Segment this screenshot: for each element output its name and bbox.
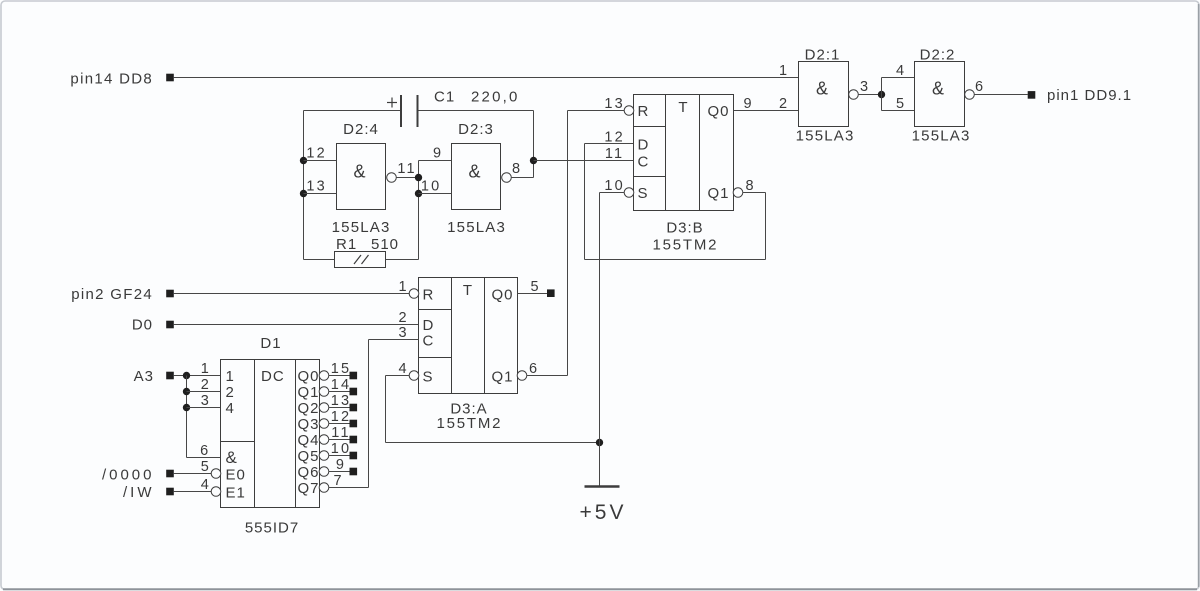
- svg-text:155LA3: 155LA3: [796, 128, 855, 145]
- svg-text:Q3: Q3: [298, 416, 320, 433]
- svg-text:Q1: Q1: [707, 185, 729, 202]
- wire D3:B feedback right vertical: [765, 193, 767, 260]
- D3:B cell line C/S: [634, 176, 666, 178]
- wire D2:2 pin 4: [882, 77, 915, 79]
- net label /0000: [102, 466, 155, 483]
- pin number 2 (D3:A D): [398, 310, 408, 326]
- output bubble Q5 (D1): [319, 451, 329, 461]
- pin number 4 (D3:A S): [398, 361, 408, 377]
- svg-text:4: 4: [896, 63, 906, 79]
- svg-text:8: 8: [512, 161, 522, 177]
- pin number 6 (D1): [200, 443, 210, 459]
- svg-text:Q7: Q7: [298, 480, 320, 497]
- svg-text:/0000: /0000: [102, 466, 155, 483]
- D3:A cell line R/D: [419, 309, 452, 311]
- pin number 10 (D3:B S): [604, 178, 625, 194]
- terminal Q0 D3:A: [547, 289, 555, 297]
- gate label D2:4: [343, 121, 379, 138]
- pin number 13 (D1 Q2): [331, 393, 352, 409]
- decoder D1 body: [221, 360, 320, 508]
- flip-flop D3:A body: [419, 278, 518, 394]
- port label D (D3:A): [423, 317, 435, 334]
- input bubble E0 (D1): [211, 469, 221, 479]
- svg-text:13: 13: [604, 96, 625, 112]
- amp symbol D2:1: [816, 79, 828, 99]
- wire D2:1 output to node B: [858, 94, 882, 96]
- port label R (D3:B): [638, 103, 650, 120]
- svg-text:pin1 DD9.1: pin1 DD9.1: [1047, 87, 1132, 104]
- net label pin14 DD8: [70, 71, 153, 88]
- wire D1 Q7 to D3:A C vertical: [368, 340, 370, 488]
- nand gate D2:3: [452, 144, 501, 210]
- port label E0 (D1): [226, 467, 246, 484]
- wire D2:4 pin 13: [304, 193, 337, 195]
- wire R1 left: [304, 259, 335, 261]
- type label 155LA3 (D2:1): [796, 128, 855, 145]
- svg-text:Q0: Q0: [707, 103, 729, 120]
- junction A3 pin3: [183, 404, 190, 411]
- port label Q5 (D1): [298, 448, 320, 465]
- terminal D1 Q2: [350, 404, 358, 412]
- svg-text:9: 9: [433, 146, 443, 162]
- type label 155TM2 (D3:A): [436, 415, 502, 432]
- pin number 2 (D2:1 input): [779, 96, 789, 112]
- wire bottom to +5V node: [386, 442, 600, 444]
- output bubble Q6 (D1): [319, 467, 329, 477]
- wire C1 right plate to node A: [419, 110, 534, 112]
- pin number 7 (D1 Q7): [333, 473, 343, 489]
- pin number 2 (D1): [201, 377, 211, 393]
- wire D3:B R: [568, 110, 625, 112]
- svg-text:D1: D1: [260, 335, 281, 352]
- net label /IW: [123, 484, 155, 501]
- pin number 8 (D3:B Q1): [745, 178, 755, 194]
- terminal D1 Q0: [350, 372, 358, 380]
- svg-text:C1: C1: [434, 89, 455, 106]
- svg-text:R: R: [423, 287, 435, 304]
- terminal /IW: [166, 488, 174, 496]
- wire D2:4 pin 12: [304, 160, 337, 162]
- wire /0000 to E0: [174, 473, 212, 475]
- svg-text:C: C: [638, 154, 650, 171]
- svg-text:3: 3: [398, 325, 408, 341]
- svg-text:2: 2: [398, 310, 408, 326]
- D3:B divider left: [665, 95, 667, 211]
- svg-text:9: 9: [743, 96, 753, 112]
- svg-text:155TM2: 155TM2: [436, 415, 502, 432]
- svg-text:S: S: [638, 185, 649, 202]
- output bubble Q4 (D1): [319, 435, 329, 445]
- svg-text:13: 13: [306, 179, 327, 195]
- junction node B: [878, 91, 885, 98]
- wire D1 pin 6: [187, 457, 221, 459]
- pin number 12 (D3:B D): [604, 130, 625, 146]
- port label C (D3:B): [638, 154, 650, 171]
- output bubble Q1 (D3:B): [733, 188, 743, 198]
- svg-text:A3: A3: [134, 368, 154, 385]
- net label A3: [134, 368, 154, 385]
- D1 divider right: [295, 360, 297, 508]
- input bubble R (D3:B): [624, 106, 634, 116]
- terminal D1 Q1: [350, 388, 358, 396]
- terminal pin2 GF24: [166, 290, 174, 298]
- junction on node for pin 13: [300, 190, 307, 197]
- pin number 10 (D1 Q5): [331, 441, 352, 457]
- wire C1 left node vertical: [303, 111, 305, 260]
- pin number 3 (D1): [201, 393, 211, 409]
- svg-text:T: T: [463, 282, 473, 299]
- wire C1 left plate: [304, 110, 401, 112]
- pin number 6 (D3:A Q1): [529, 361, 539, 377]
- wire D1 pin 2: [187, 391, 221, 393]
- wire D2:3 pin 9: [419, 160, 452, 162]
- svg-text:2: 2: [226, 384, 235, 401]
- wire R1 right: [386, 259, 419, 261]
- pin number 9 (D3:B Q0): [743, 96, 753, 112]
- svg-text:S: S: [423, 369, 434, 386]
- output bubble Q1 (D1): [319, 387, 329, 397]
- type label 555ID7 (D1): [245, 520, 299, 537]
- svg-text:Q1: Q1: [491, 369, 513, 386]
- pin number 13 (D3:B R): [604, 96, 625, 112]
- port label T (D3:A): [463, 282, 473, 299]
- terminal D0: [166, 321, 174, 329]
- port label Q6 (D1): [298, 464, 320, 481]
- terminal pin1 DD9.1: [1028, 91, 1036, 99]
- resistor value 510: [371, 236, 399, 253]
- pin number 9 (D1 Q6): [336, 457, 346, 473]
- value label C1: [434, 89, 455, 106]
- port label Q2 (D1): [298, 400, 320, 417]
- svg-text:11: 11: [605, 146, 624, 162]
- gate label D2:1: [805, 47, 841, 64]
- svg-text:D2:4: D2:4: [343, 121, 379, 138]
- svg-text:15: 15: [331, 361, 352, 377]
- svg-text:3: 3: [201, 393, 211, 409]
- wire D2:2 pin 5: [882, 110, 915, 112]
- svg-text:D2:3: D2:3: [458, 121, 494, 138]
- wire D3:B S: [600, 192, 625, 194]
- terminal D1 Q3: [350, 420, 358, 428]
- wire D1 Q3 output: [329, 423, 350, 425]
- svg-text:Q4: Q4: [298, 432, 320, 449]
- port label Q1 (D3:B): [707, 185, 729, 202]
- port label T (D3:B): [678, 99, 688, 116]
- svg-text:4: 4: [201, 477, 211, 493]
- weight label 2 (D1): [226, 384, 235, 401]
- pin number 10 (D2:3): [421, 179, 442, 195]
- output bubble Q1 (D3:A): [517, 371, 527, 381]
- type label 155LA3 (D2:3): [447, 219, 506, 236]
- output bubble Q7 (D1): [319, 483, 329, 493]
- wire D3:A C from Q7: [369, 339, 419, 341]
- svg-text:9: 9: [336, 457, 346, 473]
- svg-text:&: &: [353, 162, 365, 182]
- svg-text:11: 11: [331, 425, 350, 441]
- wire /IW to E1: [174, 491, 212, 493]
- terminal pin14 DD8: [166, 74, 174, 82]
- port label Q3 (D1): [298, 416, 320, 433]
- ff label D3:A: [450, 401, 487, 418]
- port label DC (D1): [261, 368, 285, 385]
- capacitor C1: [401, 95, 418, 127]
- wire D3:A S vertical: [385, 376, 387, 443]
- wire A3 to D1 pin 1: [174, 375, 221, 377]
- svg-text:Q2: Q2: [298, 400, 320, 417]
- node A vertical wire: [533, 111, 535, 178]
- svg-text:5: 5: [201, 459, 211, 475]
- pin number 11 (D3:B C): [605, 146, 624, 162]
- svg-text:D: D: [638, 137, 650, 154]
- amp symbol D2:3: [468, 162, 480, 182]
- resistor R1: [335, 252, 386, 268]
- svg-text:155TM2: 155TM2: [652, 237, 718, 254]
- svg-text:1: 1: [226, 368, 235, 385]
- port label E1 (D1): [226, 485, 246, 502]
- gate label D2:3: [458, 121, 494, 138]
- input bubble S (D3:A): [409, 371, 419, 381]
- wire D3:A S: [386, 375, 410, 377]
- junction node 11 at pin 10: [415, 190, 422, 197]
- resistor label R1: [336, 236, 357, 253]
- output bubble Q0 (D1): [319, 371, 329, 381]
- svg-text:155LA3: 155LA3: [332, 219, 391, 236]
- pin number 9 (D2:3): [433, 146, 443, 162]
- svg-text:155LA3: 155LA3: [447, 219, 506, 236]
- svg-text:Q6: Q6: [298, 464, 320, 481]
- svg-text:7: 7: [333, 473, 343, 489]
- svg-text:E0: E0: [226, 467, 246, 484]
- power label +5V: [580, 501, 627, 524]
- wire D2:2 output to terminal: [974, 94, 1028, 96]
- power rail +5V bar: [585, 485, 620, 488]
- D1 cell line: [221, 441, 255, 443]
- flip-flop D3:B body: [634, 95, 734, 211]
- wire D3:B Q1 right: [743, 192, 766, 194]
- svg-text:555ID7: 555ID7: [245, 520, 299, 537]
- wire D1 pin 3: [187, 407, 221, 409]
- svg-text:Q0: Q0: [298, 368, 320, 385]
- amp symbol D2:2: [932, 79, 944, 99]
- svg-text:E1: E1: [226, 485, 246, 502]
- wire pin14 DD8 to D2:1 pin 1: [174, 77, 799, 79]
- svg-text:4: 4: [398, 361, 408, 377]
- net label pin2 GF24: [71, 286, 153, 303]
- svg-text:D2:2: D2:2: [920, 47, 956, 64]
- port label Q4 (D1): [298, 432, 320, 449]
- svg-text:1: 1: [398, 279, 408, 295]
- net label D0: [132, 317, 153, 334]
- svg-text:Q5: Q5: [298, 448, 320, 465]
- svg-text:2: 2: [779, 96, 789, 112]
- svg-text:T: T: [678, 99, 688, 116]
- pin number 4 (D2:2 input): [896, 63, 906, 79]
- wire D2:3 output to node A: [511, 177, 534, 179]
- nand gate D2:2: [915, 62, 965, 127]
- terminal D1 Q5: [350, 452, 358, 460]
- pin number 11 (D1 Q4): [331, 425, 350, 441]
- svg-text:155LA3: 155LA3: [912, 128, 971, 145]
- svg-text:pin2 GF24: pin2 GF24: [71, 286, 153, 303]
- svg-text:13: 13: [331, 393, 352, 409]
- wire S D3:B to +5V vertical: [599, 193, 601, 487]
- wire D2:3 pin 10: [419, 193, 452, 195]
- junction A3 pin1: [183, 372, 190, 379]
- pin number 1 (D2:1 input): [779, 63, 789, 79]
- svg-text:D0: D0: [132, 317, 153, 334]
- port label Q0 (D1): [298, 368, 320, 385]
- svg-text:12: 12: [306, 146, 327, 162]
- weight label 1 (D1): [226, 368, 235, 385]
- svg-text:&: &: [932, 79, 944, 99]
- wire D0 to D3:A D: [174, 324, 419, 326]
- svg-text:R: R: [638, 103, 650, 120]
- terminal D1 Q6: [350, 468, 358, 476]
- output bubble D2:3: [502, 173, 512, 183]
- svg-text:4: 4: [226, 400, 235, 417]
- svg-text:14: 14: [331, 377, 352, 393]
- junction on node for pin 12: [300, 157, 307, 164]
- svg-text:&: &: [468, 162, 480, 182]
- svg-text:DC: DC: [261, 368, 285, 385]
- pin number 1 (D1): [201, 361, 211, 377]
- junction node A: [530, 157, 537, 164]
- svg-text:C: C: [423, 333, 435, 350]
- gate label D2:2: [920, 47, 956, 64]
- amp symbol D2:4: [353, 162, 365, 182]
- svg-text:6: 6: [200, 443, 210, 459]
- svg-text:10: 10: [331, 441, 352, 457]
- type label 155TM2 (D3:B): [652, 237, 718, 254]
- wire D3:B R to D3:A Q1 vertical: [567, 111, 569, 376]
- svg-text:12: 12: [331, 409, 352, 425]
- port label Q7 (D1): [298, 480, 320, 497]
- junction node 11 at output: [415, 174, 422, 181]
- port label Q0 (D3:B): [707, 103, 729, 120]
- svg-text:510: 510: [371, 236, 399, 253]
- port label R (D3:A): [423, 287, 435, 304]
- wire D3:B Q0 to D2:1 pin 2: [734, 110, 799, 112]
- wire D3:B feedback left vertical: [584, 144, 586, 260]
- wire D1 Q5 output: [329, 455, 350, 457]
- pin number 8 (D2:3 output): [512, 161, 522, 177]
- output bubble Q2 (D1): [319, 403, 329, 413]
- svg-text:11: 11: [397, 161, 416, 177]
- pin number 5 (D2:2 input): [896, 96, 906, 112]
- pin number 5 (D1 E0): [201, 459, 211, 475]
- terminal /0000: [166, 470, 174, 478]
- D3:B cell line R/D: [634, 126, 666, 128]
- terminal D1 Q4: [350, 436, 358, 444]
- port label S (D3:A): [423, 369, 434, 386]
- pin number 12 (D1 Q3): [331, 409, 352, 425]
- resistor R1 rating marks: [354, 255, 369, 264]
- pin number 4 (D1 E1): [201, 477, 211, 493]
- svg-text:6: 6: [975, 79, 985, 95]
- terminal A3: [166, 372, 174, 380]
- input bubble E1 (D1): [211, 487, 221, 497]
- port label Q1 (D3:A): [491, 369, 513, 386]
- ff label D3:B: [666, 220, 703, 237]
- D3:A divider left: [451, 278, 453, 394]
- input bubble R (D3:A): [409, 289, 419, 299]
- svg-text:10: 10: [604, 178, 625, 194]
- wire D1 Q1 output: [329, 391, 350, 393]
- pin number 12 (D2:4): [306, 146, 327, 162]
- type label 155LA3 (D2:4): [332, 219, 391, 236]
- weight label 4 (D1): [226, 400, 235, 417]
- wire D1 Q2 output: [329, 407, 350, 409]
- pin number 13 (D2:4): [306, 179, 327, 195]
- port label C (D3:A): [423, 333, 435, 350]
- pin number 1 (D3:A R): [398, 279, 408, 295]
- svg-text:D2:1: D2:1: [805, 47, 841, 64]
- svg-text:10: 10: [421, 179, 442, 195]
- svg-text:5: 5: [530, 279, 540, 295]
- wire D1 Q7 output: [329, 487, 369, 489]
- svg-text:D3:B: D3:B: [666, 220, 703, 237]
- amp symbol D1: [226, 448, 238, 467]
- nand gate D2:1: [799, 62, 849, 127]
- svg-text:3: 3: [860, 79, 870, 95]
- wire D1 Q4 output: [329, 439, 350, 441]
- D3:A cell line C/S: [419, 357, 452, 359]
- nand gate D2:4: [337, 144, 386, 210]
- wire D3:B D: [585, 143, 634, 145]
- port label S (D3:B): [638, 185, 649, 202]
- output bubble D2:1: [849, 90, 859, 100]
- wire D1 Q0 output: [329, 375, 350, 377]
- port label Q1 (D1): [298, 384, 320, 401]
- capacitor C1 polarity +: [387, 98, 397, 108]
- output bubble D2:4: [387, 173, 397, 183]
- svg-text:Q1: Q1: [298, 384, 320, 401]
- junction +5V node: [596, 439, 603, 446]
- junction A3 pin2: [183, 388, 190, 395]
- wire D2:4 output to node 11: [396, 177, 419, 179]
- svg-text:1: 1: [201, 361, 211, 377]
- svg-text:D: D: [423, 317, 435, 334]
- type label 155LA3 (D2:2): [912, 128, 971, 145]
- wire D1 Q6 output: [329, 471, 350, 473]
- wire pin2 GF24 to D3:A R: [174, 293, 410, 295]
- pin number 6 (D2:2 output): [975, 79, 985, 95]
- port label D (D3:B): [638, 137, 650, 154]
- net label pin1 DD9.1: [1047, 87, 1132, 104]
- wire D3:A Q1 right: [527, 375, 568, 377]
- svg-text:/IW: /IW: [123, 484, 155, 501]
- svg-text:R1: R1: [336, 236, 357, 253]
- node 11 vertical wire: [418, 161, 420, 260]
- wire node A to D3:B pin C: [534, 160, 634, 162]
- output bubble Q3 (D1): [319, 419, 329, 429]
- svg-text:&: &: [226, 448, 238, 467]
- svg-text:5: 5: [896, 96, 906, 112]
- port label Q0 (D3:A): [491, 287, 513, 304]
- pin number 14 (D1 Q1): [331, 377, 352, 393]
- A3 vertical wire: [186, 376, 188, 458]
- pin number 15 (D1 Q0): [331, 361, 352, 377]
- svg-text:1: 1: [779, 63, 789, 79]
- pin number 11 (D2:4 output): [397, 161, 416, 177]
- decoder label D1: [260, 335, 281, 352]
- wire D3:B feedback bottom: [585, 259, 766, 261]
- svg-text:220,0: 220,0: [471, 89, 520, 106]
- D3:A divider right: [484, 278, 486, 394]
- value label 220,0: [471, 89, 520, 106]
- svg-text:2: 2: [201, 377, 211, 393]
- svg-text:8: 8: [745, 178, 755, 194]
